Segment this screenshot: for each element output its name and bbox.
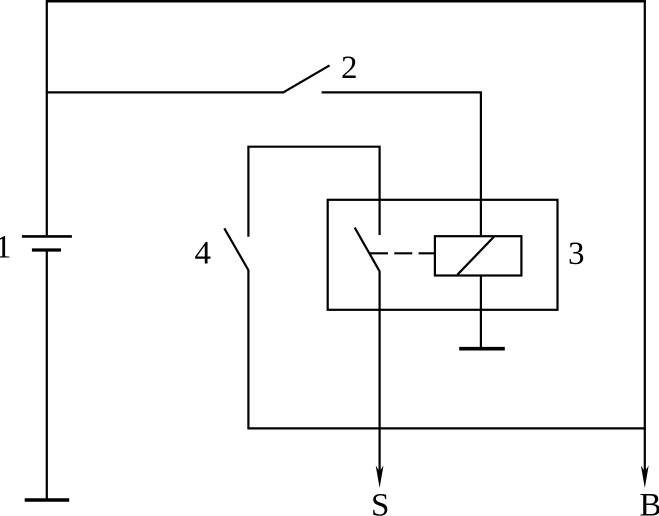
svg-text:3: 3: [568, 236, 585, 272]
relay box 3: [328, 200, 558, 310]
battery 1: short plate (-): [32, 248, 61, 251]
wire: bottom horizontal: [247, 427, 646, 429]
wire: from left rail to switch 2: [46, 91, 283, 93]
relay coil: [435, 236, 522, 275]
switch 4 blade: [224, 228, 248, 270]
relay coil diagonal: [457, 236, 494, 274]
svg-text:S: S: [371, 487, 389, 516]
wire: loop from switch 4 to relay contact: [248, 147, 379, 237]
battery 1: long plate (+): [22, 235, 72, 238]
wire: below battery down to ground: [46, 250, 48, 499]
wire: coil bottom to ground: [480, 276, 482, 348]
svg-text:B: B: [640, 487, 659, 516]
switch 2 blade: [283, 65, 330, 92]
svg-text:4: 4: [195, 235, 212, 271]
arrowhead B: [641, 466, 649, 489]
wire: right vertical rail: [644, 1, 646, 428]
svg-text:2: 2: [341, 50, 358, 86]
svg-text:1: 1: [0, 230, 12, 266]
arrowhead S: [376, 466, 384, 489]
wire: top border: [46, 0, 646, 3]
wire: S line from relay contact through box and bottom wire: [379, 272, 381, 473]
wire: left vertical from top border to battery: [46, 1, 48, 235]
wire: switch 4 lower contact down to bottom wire: [247, 270, 249, 428]
ground terminal bottom-left: [25, 498, 69, 502]
linkage dashed line: [370, 252, 435, 254]
ground under coil: [459, 347, 505, 351]
wire: B arrow shaft: [644, 428, 646, 472]
relay contact blade: [355, 228, 380, 272]
wire: switch 2 right contact to coil top: [322, 92, 481, 236]
